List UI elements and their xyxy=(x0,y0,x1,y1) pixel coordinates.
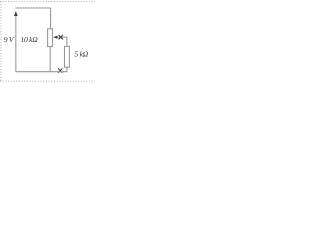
potentiometer wiper arrow xyxy=(53,36,67,39)
svg-text:10 kΩ: 10 kΩ xyxy=(20,35,38,44)
voltage source arrow 9V xyxy=(14,11,18,72)
node x mark on bottom wire xyxy=(58,68,62,73)
wire top xyxy=(15,7,51,9)
wire R2 bottom lead xyxy=(66,67,68,72)
wire bottom xyxy=(15,71,67,73)
resistor R1 10 kΩ xyxy=(48,29,53,47)
wire R1 bottom lead xyxy=(49,47,51,72)
svg-text:9 V: 9 V xyxy=(4,35,15,44)
wire top-right drop to R1 xyxy=(50,8,52,29)
resistor R2 5 kΩ xyxy=(65,46,70,67)
node x mark on wiper wire xyxy=(59,35,63,40)
svg-text:5 kΩ: 5 kΩ xyxy=(74,49,88,58)
wire wiper down to R2 xyxy=(66,37,68,47)
